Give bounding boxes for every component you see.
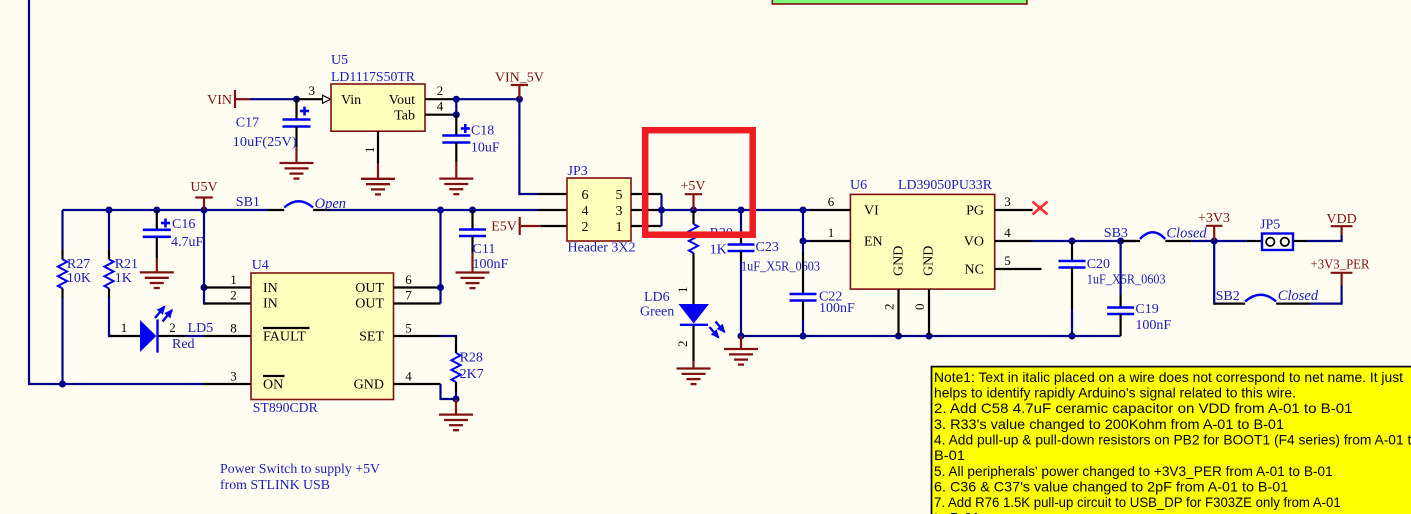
- svg-text:Red: Red: [172, 337, 195, 352]
- svg-text:FAULT: FAULT: [263, 330, 306, 345]
- svg-text:C23: C23: [756, 240, 779, 255]
- svg-text:6: 6: [405, 272, 412, 287]
- svg-text:JP3: JP3: [568, 164, 588, 179]
- svg-text:4. Add pull-up & pull-down res: 4. Add pull-up & pull-down resistors on …: [934, 432, 1411, 448]
- svg-text:Power Switch to supply +5V: Power Switch to supply +5V: [220, 462, 380, 477]
- svg-text:100nF: 100nF: [1135, 318, 1171, 333]
- svg-text:SB3: SB3: [1104, 226, 1128, 241]
- svg-text:1uF_X5R_0603: 1uF_X5R_0603: [1087, 273, 1166, 288]
- svg-text:C18: C18: [471, 124, 494, 139]
- svg-text:100nF: 100nF: [819, 301, 855, 316]
- svg-text:4: 4: [437, 99, 444, 114]
- svg-text:IN: IN: [263, 281, 278, 296]
- svg-text:Closed: Closed: [1278, 288, 1319, 304]
- svg-text:3: 3: [616, 204, 623, 219]
- svg-text:10K: 10K: [67, 271, 91, 286]
- svg-text:2K7: 2K7: [460, 367, 484, 382]
- svg-text:ST890CDR: ST890CDR: [253, 401, 319, 416]
- svg-text:GND: GND: [892, 246, 907, 276]
- svg-text:3: 3: [230, 369, 237, 384]
- svg-text:6: 6: [828, 194, 835, 209]
- svg-text:LD6: LD6: [644, 290, 670, 305]
- svg-text:C20: C20: [1087, 257, 1110, 272]
- svg-text:Vout: Vout: [389, 93, 415, 108]
- svg-text:5. All peripherals' power chan: 5. All peripherals' power changed to +3V…: [934, 463, 1333, 479]
- svg-text:LD5: LD5: [188, 321, 214, 336]
- svg-text:VIN: VIN: [207, 93, 232, 108]
- svg-text:C19: C19: [1135, 302, 1158, 317]
- svg-text:IN: IN: [263, 297, 278, 312]
- svg-text:VDD: VDD: [1326, 212, 1356, 227]
- svg-text:JP5: JP5: [1260, 218, 1280, 233]
- svg-text:U5V: U5V: [190, 180, 217, 195]
- svg-text:SB1: SB1: [236, 195, 260, 210]
- svg-text:1K: 1K: [710, 243, 727, 258]
- svg-text:SB2: SB2: [1216, 289, 1240, 304]
- svg-text:2. Add C58 4.7uF ceramic capac: 2. Add C58 4.7uF ceramic capacitor on VD…: [934, 400, 1353, 416]
- svg-text:100nF: 100nF: [473, 257, 509, 272]
- svg-text:1uF_X5R_0603: 1uF_X5R_0603: [741, 260, 820, 275]
- svg-text:7: 7: [405, 288, 412, 303]
- svg-text:1: 1: [616, 220, 623, 235]
- svg-text:1: 1: [362, 147, 377, 154]
- svg-text:Header 3X2: Header 3X2: [568, 241, 636, 256]
- svg-text:3. R33's value changed to 200K: 3. R33's value changed to 200Kohm from A…: [934, 416, 1284, 432]
- svg-text:1: 1: [121, 320, 128, 335]
- svg-text:GND: GND: [922, 246, 937, 276]
- svg-text:+3V3: +3V3: [1198, 211, 1230, 226]
- svg-text:5: 5: [616, 188, 623, 203]
- svg-text:VI: VI: [864, 204, 879, 219]
- svg-text:5: 5: [405, 321, 412, 336]
- svg-text:5: 5: [1004, 253, 1011, 268]
- svg-text:NC: NC: [965, 263, 984, 278]
- svg-text:Note1: Text in italic placed o: Note1: Text in italic placed on a wire d…: [934, 369, 1403, 385]
- svg-text:C11: C11: [473, 242, 496, 257]
- svg-text:helps to identify rapidly Ardu: helps to identify rapidly Arduino's sign…: [934, 385, 1296, 401]
- svg-text:R21: R21: [115, 257, 138, 272]
- svg-text:Closed: Closed: [1166, 226, 1207, 242]
- svg-text:+5V: +5V: [680, 179, 705, 194]
- svg-text:7. Add R76 1.5K pull-up circui: 7. Add R76 1.5K pull-up circuit to USB_D…: [934, 494, 1341, 510]
- svg-text:VIN_5V: VIN_5V: [495, 71, 544, 86]
- svg-text:4.7uF: 4.7uF: [171, 235, 204, 250]
- svg-text:GND: GND: [354, 378, 384, 393]
- svg-text:C17: C17: [236, 116, 259, 131]
- svg-text:0: 0: [912, 304, 927, 311]
- svg-text:2: 2: [169, 320, 176, 335]
- svg-text:8: 8: [230, 321, 237, 336]
- svg-text:1: 1: [828, 225, 835, 240]
- svg-text:OUT: OUT: [355, 281, 384, 296]
- svg-text:U4: U4: [252, 258, 269, 273]
- svg-text:ON: ON: [263, 378, 283, 393]
- svg-text:U6: U6: [850, 178, 867, 193]
- svg-text:2: 2: [230, 288, 237, 303]
- svg-text:from STLINK USB: from STLINK USB: [220, 478, 330, 493]
- svg-text:EN: EN: [864, 235, 883, 250]
- svg-text:Vin: Vin: [341, 93, 361, 108]
- svg-text:4: 4: [405, 369, 412, 384]
- svg-text:6. C36 & C37's value changed t: 6. C36 & C37's value changed to 2pF from…: [934, 478, 1288, 494]
- svg-text:2: 2: [437, 83, 444, 98]
- svg-text:PG: PG: [966, 204, 984, 219]
- svg-text:4: 4: [1004, 225, 1011, 240]
- svg-text:+3V3_PER: +3V3_PER: [1311, 258, 1371, 273]
- svg-text:B-01: B-01: [934, 447, 965, 463]
- svg-text:C16: C16: [172, 217, 195, 232]
- svg-text:to B-01: to B-01: [934, 510, 980, 514]
- svg-text:6: 6: [582, 188, 589, 203]
- svg-text:2: 2: [882, 304, 897, 311]
- svg-text:1: 1: [230, 272, 237, 287]
- svg-text:3: 3: [309, 83, 316, 98]
- svg-text:10uF(25V): 10uF(25V): [233, 135, 297, 150]
- svg-text:E5V: E5V: [491, 220, 517, 235]
- svg-text:LD1117S50TR: LD1117S50TR: [331, 70, 416, 85]
- svg-text:3: 3: [1004, 194, 1011, 209]
- svg-text:4: 4: [582, 204, 589, 219]
- svg-text:R28: R28: [460, 351, 483, 366]
- svg-text:Green: Green: [640, 305, 674, 320]
- svg-text:1: 1: [675, 287, 690, 294]
- svg-text:1K: 1K: [115, 271, 132, 286]
- svg-text:R27: R27: [67, 257, 90, 272]
- svg-text:U5: U5: [331, 53, 348, 68]
- svg-text:10uF: 10uF: [471, 141, 500, 156]
- svg-text:OUT: OUT: [355, 297, 384, 312]
- svg-text:LD39050PU33R: LD39050PU33R: [898, 178, 993, 193]
- svg-text:VO: VO: [964, 235, 984, 250]
- svg-text:Tab: Tab: [394, 109, 415, 124]
- svg-text:Open: Open: [315, 196, 346, 212]
- svg-text:2: 2: [675, 341, 690, 348]
- svg-text:SET: SET: [359, 330, 384, 345]
- svg-text:2: 2: [582, 220, 589, 235]
